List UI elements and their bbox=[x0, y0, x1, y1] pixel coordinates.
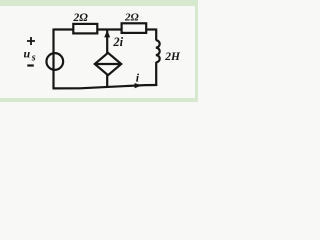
svg-text:s: s bbox=[31, 53, 36, 64]
green band right bbox=[195, 0, 198, 102]
inductor L 2H coil bbox=[156, 40, 160, 62]
svg-text:2H: 2H bbox=[164, 51, 181, 63]
arrowhead of current i (pointing right) bbox=[135, 83, 142, 88]
green band bottom bbox=[0, 98, 198, 102]
green band top bbox=[0, 0, 198, 6]
svg-text:2Ω: 2Ω bbox=[73, 12, 89, 24]
wire top-left segment bbox=[54, 28, 74, 30]
wire middle branch top lead bbox=[106, 30, 108, 54]
svg-text:2i: 2i bbox=[112, 35, 123, 49]
wire top-middle segment bbox=[97, 28, 122, 30]
wire bottom segment bbox=[53, 85, 158, 88]
wire left branch vertical bbox=[52, 29, 54, 89]
wire right branch bottom lead bbox=[155, 62, 157, 86]
label minus bbox=[27, 64, 34, 66]
dependent current source diamond bbox=[95, 53, 121, 75]
svg-text:u: u bbox=[24, 47, 31, 61]
resistor R1 2ohm box bbox=[73, 24, 97, 34]
label + bbox=[27, 37, 35, 45]
svg-text:2Ω: 2Ω bbox=[124, 11, 140, 23]
arrowhead of 2i source (pointing up) bbox=[104, 30, 110, 37]
wire right branch top lead bbox=[155, 29, 157, 41]
page background bbox=[0, 0, 198, 102]
voltage source us circle bbox=[46, 53, 63, 70]
dependent source horizontal bar bbox=[95, 63, 121, 65]
wire middle branch bottom lead bbox=[106, 75, 108, 88]
resistor R2 2ohm box bbox=[122, 23, 147, 33]
wire top-right segment bbox=[146, 28, 156, 30]
